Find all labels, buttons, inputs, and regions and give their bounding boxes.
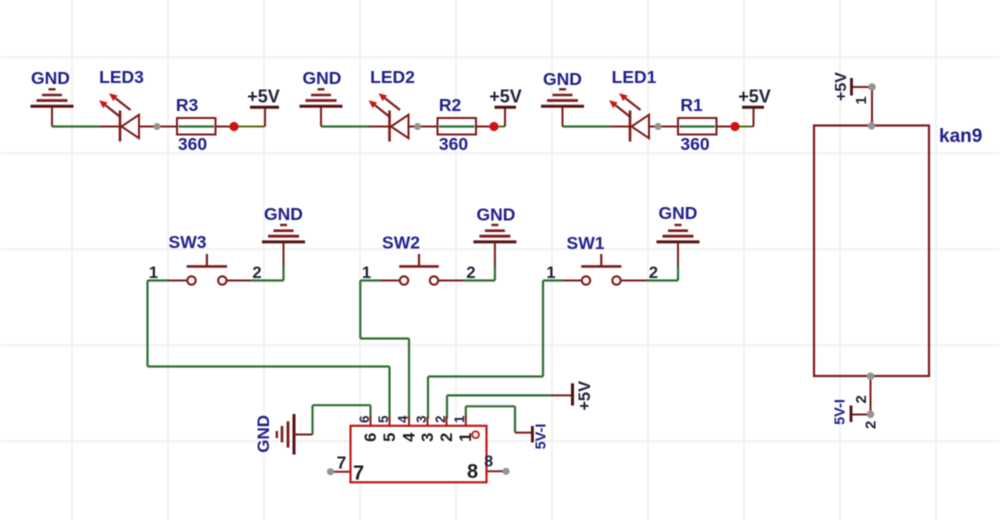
LED LED1	[609, 93, 649, 141]
wire kan9 pin2	[851, 376, 871, 415]
svg-text:7: 7	[337, 453, 347, 473]
wire SW2 pin1 to IC	[360, 281, 409, 419]
svg-text:3: 3	[414, 415, 429, 423]
label R1	[680, 95, 703, 115]
junction gray dot (LED1-R1)	[654, 123, 661, 130]
supply +5V (LED1 circuit)	[742, 107, 764, 126]
pin label 2 (kan9, outer)	[862, 421, 879, 429]
IC pin 2 stub	[446, 417, 448, 426]
svg-text:+5V: +5V	[576, 381, 594, 411]
junction gray dot (LED3-R3)	[153, 123, 160, 130]
svg-text:360: 360	[680, 134, 709, 154]
IC pin 1 outer number	[452, 415, 467, 423]
label +5V (LED2 circuit)	[489, 87, 522, 107]
label LED3	[99, 67, 144, 87]
IC pin 6 outer number	[357, 415, 372, 423]
label GND (LED1 circuit ground)	[543, 69, 582, 89]
svg-text:R3: R3	[176, 95, 199, 115]
IC pin 6 stub	[370, 417, 372, 426]
IC pin 8 gray dot	[502, 468, 509, 475]
svg-text:7: 7	[353, 463, 364, 485]
svg-text:2: 2	[252, 264, 261, 282]
wire gnd to LED1 anode	[563, 125, 632, 127]
svg-text:+5V: +5V	[247, 87, 280, 107]
label GND (SW2 ground)	[477, 205, 516, 225]
svg-text:2: 2	[862, 421, 879, 429]
label GND (IC ground, rotated)	[254, 415, 273, 453]
resistor R3 360	[177, 118, 216, 135]
svg-text:kan9: kan9	[939, 126, 982, 147]
wire R1 to +5V junction	[717, 126, 754, 128]
resistor R2 360	[438, 118, 477, 135]
IC pin 6 inner number	[362, 433, 380, 442]
svg-text:GND: GND	[659, 203, 698, 223]
svg-text:360: 360	[439, 134, 468, 154]
ground GND (LED1 circuit)	[541, 89, 584, 126]
wire gnd to LED3 anode	[52, 125, 121, 127]
svg-text:6: 6	[362, 433, 380, 442]
svg-text:5: 5	[376, 415, 391, 423]
wire R3 to +5V junction	[216, 126, 266, 128]
svg-text:GND: GND	[264, 204, 303, 224]
svg-text:1: 1	[452, 415, 467, 423]
IC pin 8 stub	[487, 470, 507, 472]
IC pin1 marker circle	[472, 431, 479, 438]
label 5V-I (kan9, rotated)	[833, 399, 849, 425]
wire SW1 pin1 to IC	[428, 281, 563, 419]
wire kan9 pin1	[871, 87, 873, 126]
pin label 1 (SW3)	[149, 264, 158, 282]
svg-text:1: 1	[149, 264, 158, 282]
IC pin 7 inner number	[353, 463, 364, 485]
ground GND (SW1)	[657, 225, 700, 266]
svg-text:1: 1	[546, 264, 555, 282]
supply +5V (LED2 circuit)	[495, 107, 517, 126]
label LED1	[612, 67, 657, 87]
svg-text:360: 360	[178, 134, 207, 154]
wire SW3 pin2 to ground	[251, 266, 283, 281]
svg-text:6: 6	[357, 415, 372, 423]
svg-text:R1: R1	[680, 95, 703, 115]
wire IC pin6 to ground	[313, 405, 371, 434]
pin label 2 (SW3)	[252, 264, 261, 282]
svg-text:2: 2	[466, 264, 475, 282]
IC pin 2 outer number	[433, 415, 448, 423]
supply 5V-I (IC pin1)	[515, 426, 532, 443]
pin label 1 (SW2)	[362, 264, 371, 282]
label GND (LED2 circuit ground)	[303, 68, 342, 88]
switch SW3	[169, 254, 252, 285]
label kan9	[939, 126, 982, 147]
label R2	[439, 95, 462, 115]
wire SW1 pin2 to ground	[646, 266, 679, 281]
IC pin 3 inner number	[419, 433, 437, 442]
svg-text:8: 8	[484, 454, 493, 471]
ground GND (IC pin6, rotated)	[277, 414, 313, 455]
junction gray dot (kan9 pin1 top)	[868, 83, 876, 91]
svg-text:GND: GND	[254, 415, 273, 453]
IC pin 3 stub	[427, 417, 429, 426]
svg-text:5: 5	[381, 433, 399, 442]
svg-text:2: 2	[649, 264, 658, 282]
ground GND (SW2)	[473, 225, 516, 266]
pin label 1 (SW1)	[546, 264, 555, 282]
label LED2	[370, 67, 415, 87]
svg-text:R2: R2	[439, 95, 462, 115]
wire LED3 cathode to R3	[139, 126, 177, 128]
label +5V (LED1 circuit)	[738, 87, 771, 107]
label 5V-I (IC pin1 supply)	[534, 424, 550, 450]
pin label 1 (kan9)	[853, 96, 870, 104]
LED LED2	[369, 93, 409, 141]
IC pin 1 inner number	[457, 433, 475, 442]
IC pin 5 stub	[389, 417, 391, 426]
svg-text:4: 4	[400, 432, 418, 442]
switch SW2	[381, 254, 463, 285]
ground GND (SW3)	[262, 225, 305, 266]
svg-text:SW1: SW1	[567, 233, 605, 253]
IC pin 7 gray dot	[327, 468, 334, 475]
wire SW3 pin1 to IC	[148, 281, 390, 419]
svg-text:2: 2	[438, 433, 456, 442]
wire SW2 pin2 to ground	[463, 266, 495, 281]
label R3	[176, 95, 199, 115]
IC pin 8 inner number	[467, 461, 478, 483]
label GND (SW3 ground)	[264, 204, 303, 224]
svg-text:1: 1	[362, 264, 371, 282]
IC pin 1 stub	[465, 417, 467, 426]
pin label 2 (SW1)	[649, 264, 658, 282]
label GND (SW1 ground)	[659, 203, 698, 223]
svg-text:GND: GND	[543, 69, 582, 89]
svg-text:2: 2	[433, 415, 448, 423]
IC pin 3 outer number	[414, 415, 429, 423]
resistor R1 360	[678, 118, 717, 135]
svg-text:+5V: +5V	[833, 72, 850, 101]
connector kan9 body	[814, 126, 929, 377]
IC pin 5 outer number	[376, 415, 391, 423]
IC pin 4 stub	[408, 417, 410, 426]
pin label 2 (SW2)	[466, 264, 475, 282]
svg-text:3: 3	[419, 433, 437, 442]
svg-text:GND: GND	[31, 68, 70, 88]
junction red dot (R2/+5V)	[489, 122, 498, 131]
svg-text:4: 4	[395, 415, 410, 423]
junction red dot (R1/+5V)	[730, 122, 739, 131]
label SW3	[169, 232, 207, 252]
wire gnd to LED2 anode	[321, 125, 391, 127]
supply +5V (kan9 pin1, rotated)	[852, 78, 873, 96]
supply 5V-I (kan9 pin2, rotated)	[850, 406, 853, 423]
label SW2	[382, 233, 420, 253]
svg-text:SW2: SW2	[382, 233, 420, 253]
wire LED2 cathode to R2	[409, 126, 438, 128]
value 360 of R1	[680, 134, 709, 154]
IC pin 7 outer number	[337, 453, 347, 473]
value 360 of R3	[178, 134, 207, 154]
svg-text:GND: GND	[477, 205, 516, 225]
IC pin 8 outer number	[484, 454, 493, 471]
label +5V (kan9, rotated)	[833, 72, 850, 101]
junction gray dot (kan9 pin2 at body)	[867, 372, 875, 380]
wire IC pin2 to +5V	[447, 395, 551, 418]
svg-text:5V-I: 5V-I	[833, 399, 849, 425]
supply +5V (IC pin2)	[551, 383, 573, 405]
label +5V (LED3 circuit)	[247, 87, 280, 107]
junction gray dot (LED2-R2)	[414, 123, 421, 130]
svg-text:2: 2	[853, 395, 870, 403]
ground GND (LED3 circuit)	[31, 89, 74, 126]
svg-text:5V-I: 5V-I	[534, 424, 550, 450]
IC pin 5 inner number	[381, 433, 399, 442]
svg-text:1: 1	[853, 96, 870, 104]
svg-text:GND: GND	[303, 68, 342, 88]
switch SW1	[563, 254, 646, 285]
svg-text:+5V: +5V	[489, 87, 522, 107]
svg-text:SW3: SW3	[169, 232, 207, 252]
svg-text:+5V: +5V	[738, 87, 771, 107]
pin label 2 (kan9, inner)	[853, 395, 870, 403]
wire IC pin1 to 5V-I	[466, 406, 515, 432]
LED LED3	[99, 93, 139, 141]
IC pin 4 outer number	[395, 415, 410, 423]
svg-text:8: 8	[467, 461, 478, 483]
supply +5V (LED3 circuit)	[250, 107, 279, 126]
svg-text:LED2: LED2	[370, 67, 415, 87]
label +5V (IC pin2 supply)	[576, 381, 594, 411]
IC pin 7 stub	[331, 471, 351, 473]
svg-text:LED3: LED3	[99, 67, 144, 87]
svg-text:LED1: LED1	[612, 67, 657, 87]
ground GND (LED2 circuit)	[300, 89, 343, 126]
IC pin 2 inner number	[438, 433, 456, 442]
wire R2 to +5V junction	[476, 126, 505, 128]
IC pin 4 inner number	[400, 432, 418, 442]
wire LED1 cathode to R1	[649, 126, 678, 128]
op-amp/IC U1 body	[351, 426, 487, 483]
value 360 of R2	[439, 134, 468, 154]
junction gray dot (kan9 pin2 bottom)	[867, 411, 875, 419]
label GND (LED3 circuit ground)	[31, 68, 70, 88]
junction gray dot (kan9 pin1 at body)	[868, 122, 876, 130]
label SW1	[567, 233, 605, 253]
junction red dot (R3/+5V)	[229, 122, 238, 131]
